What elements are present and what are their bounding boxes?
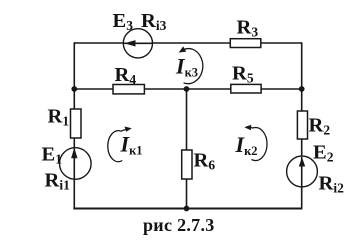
resistor R2 bbox=[297, 111, 307, 139]
svg-text:R6: R6 bbox=[194, 150, 216, 173]
node junction center-middle bbox=[184, 86, 190, 92]
loop current arrow Ik2 bbox=[247, 127, 268, 161]
node junction left-middle bbox=[71, 86, 77, 92]
wire left vertical bbox=[73, 42, 75, 208]
svg-text:R1: R1 bbox=[48, 106, 70, 129]
voltage source E1 bbox=[60, 148, 92, 180]
voltage source E3 bbox=[123, 29, 152, 58]
wire right vertical bbox=[301, 42, 303, 208]
svg-text:E3: E3 bbox=[113, 10, 134, 33]
node junction center-bottom bbox=[184, 206, 190, 212]
wire top rail bbox=[74, 42, 302, 44]
svg-text:Ri3: Ri3 bbox=[141, 10, 167, 33]
wire middle vertical bbox=[186, 89, 188, 209]
loop current arrow Ik1 bbox=[108, 129, 129, 162]
resistor R4 bbox=[113, 85, 144, 94]
svg-text:R2: R2 bbox=[309, 115, 331, 138]
wire bottom rail bbox=[73, 208, 302, 210]
svg-text:Iк3: Iк3 bbox=[175, 54, 198, 80]
svg-text:R5: R5 bbox=[232, 63, 254, 86]
svg-text:R3: R3 bbox=[237, 17, 259, 40]
loop current arrow Ik3 bbox=[184, 49, 203, 84]
node junction right-middle bbox=[299, 86, 305, 92]
svg-text:Iк1: Iк1 bbox=[120, 132, 143, 158]
resistor R5 bbox=[231, 84, 261, 93]
svg-text:E1: E1 bbox=[42, 144, 63, 167]
svg-text:Ri2: Ri2 bbox=[319, 173, 345, 196]
resistor R1 bbox=[71, 109, 82, 138]
svg-text:R4: R4 bbox=[115, 64, 137, 87]
svg-text:рис 2.7.3: рис 2.7.3 bbox=[143, 215, 215, 235]
resistor R3 bbox=[230, 39, 260, 48]
resistor R6 bbox=[182, 150, 192, 179]
svg-text:E2: E2 bbox=[313, 142, 334, 165]
voltage source E2 bbox=[287, 156, 318, 187]
svg-text:Iк2: Iк2 bbox=[235, 132, 258, 158]
wire middle rail bbox=[74, 88, 302, 90]
